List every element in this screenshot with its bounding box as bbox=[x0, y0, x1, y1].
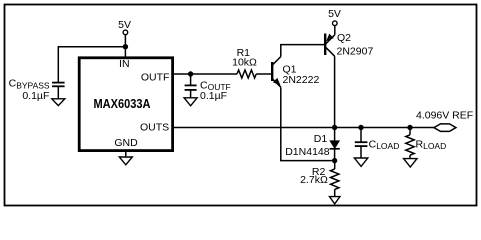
label R2 2.7k bbox=[300, 166, 328, 186]
transistor Q2 2N2907 bbox=[325, 34, 335, 57]
label C_OUTF 0.1uF bbox=[200, 80, 231, 103]
IC U1 MAX6033A bbox=[79, 58, 172, 151]
svg-text:CLOAD: CLOAD bbox=[369, 138, 400, 151]
label R1 10k bbox=[232, 47, 257, 69]
node: C_LOAD junction bbox=[358, 125, 363, 130]
power terminal 5V (right, above Q2) bbox=[328, 8, 341, 35]
resistor R1 bbox=[237, 70, 256, 78]
svg-text:0.1µF: 0.1µF bbox=[22, 90, 49, 102]
capacitor C_OUTF bbox=[185, 74, 197, 98]
ground (C_LOAD) bbox=[354, 158, 367, 166]
svg-text:GND: GND bbox=[114, 137, 138, 149]
svg-text:5V: 5V bbox=[118, 19, 131, 31]
transistor Q1 2N2222 bbox=[256, 57, 281, 88]
svg-text:5V: 5V bbox=[328, 8, 341, 20]
power terminal 5V (left, above IN) bbox=[118, 19, 131, 58]
ground (R2) bbox=[330, 197, 340, 204]
node: R_LOAD junction bbox=[407, 125, 412, 130]
node: output/Q2/D1 junction bbox=[332, 125, 337, 130]
capacitor C_BYPASS bbox=[52, 83, 65, 99]
resistor R_LOAD bbox=[406, 128, 414, 159]
wire: Q2 collector down to output node bbox=[334, 56, 336, 127]
resistor R2 bbox=[331, 161, 339, 197]
label D1 D1N4148 bbox=[285, 133, 330, 158]
node: C_OUTF junction bbox=[188, 71, 193, 76]
wire: junction to C_BYPASS branch bbox=[58, 47, 125, 83]
svg-text:2N2222: 2N2222 bbox=[283, 74, 320, 86]
ground (C_OUTF) bbox=[184, 98, 197, 106]
svg-text:4.096V REF: 4.096V REF bbox=[416, 110, 473, 122]
wire: OUTS pin to output terminal bbox=[174, 127, 434, 129]
ground (R_LOAD) bbox=[404, 159, 417, 167]
svg-text:2N2907: 2N2907 bbox=[337, 46, 374, 58]
svg-text:2.7kΩ: 2.7kΩ bbox=[300, 174, 328, 186]
svg-text:MAX6033A: MAX6033A bbox=[94, 96, 152, 111]
ground (GND pin) bbox=[119, 150, 132, 165]
label Q2 2N2907 bbox=[337, 32, 374, 57]
svg-text:RLOAD: RLOAD bbox=[416, 138, 447, 151]
svg-text:CBYPASS: CBYPASS bbox=[9, 78, 50, 91]
wire: Q1 collector to Q2 base bbox=[281, 45, 324, 57]
svg-text:0.1µF: 0.1µF bbox=[200, 90, 227, 102]
node: D1 cathode / R2 / Q1 emitter junction bbox=[332, 158, 337, 163]
capacitor C_LOAD bbox=[355, 128, 368, 159]
wire: Q1 emitter down and right to D1 cathode node bbox=[281, 87, 332, 160]
svg-text:10kΩ: 10kΩ bbox=[232, 56, 257, 68]
svg-text:D1: D1 bbox=[314, 133, 328, 145]
label Q1 2N2222 bbox=[283, 64, 320, 87]
svg-text:OUTF: OUTF bbox=[141, 71, 170, 83]
svg-text:IN: IN bbox=[119, 58, 130, 70]
wire: OUTF pin to R1 bbox=[174, 73, 238, 75]
svg-text:Q2: Q2 bbox=[337, 32, 351, 44]
svg-text:D1N4148: D1N4148 bbox=[285, 146, 330, 158]
node: 5V/IN junction bbox=[123, 44, 128, 49]
ground (C_BYPASS) bbox=[52, 99, 65, 106]
label C_BYPASS 0.1uF bbox=[9, 78, 50, 102]
output terminal 4.096V REF bbox=[416, 110, 473, 132]
diode D1 D1N4148 bbox=[330, 128, 340, 161]
svg-text:OUTS: OUTS bbox=[140, 122, 169, 134]
